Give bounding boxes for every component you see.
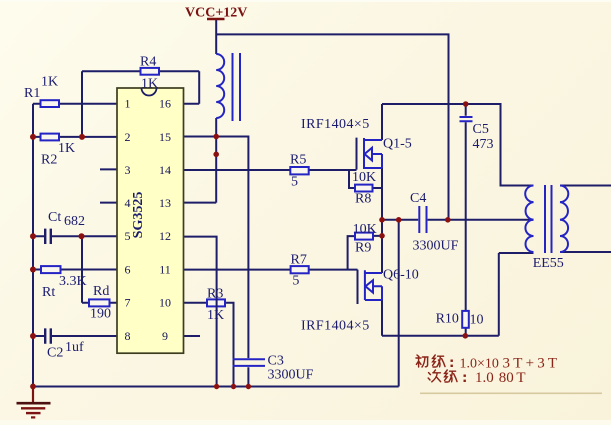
svg-text:7: 7 (125, 296, 131, 310)
svg-text:1: 1 (125, 97, 131, 111)
svg-text:VCC+12V: VCC+12V (185, 6, 247, 21)
svg-text:10: 10 (470, 313, 484, 328)
svg-text:R3: R3 (207, 287, 223, 302)
svg-text:14: 14 (159, 163, 171, 177)
svg-text:16: 16 (159, 97, 171, 111)
svg-text:8: 8 (125, 329, 131, 343)
svg-text:5: 5 (125, 229, 131, 243)
svg-text:1K: 1K (58, 141, 75, 156)
svg-text:R4: R4 (140, 55, 156, 70)
svg-text:13: 13 (159, 196, 171, 210)
svg-text:9: 9 (162, 329, 168, 343)
svg-text:R10: R10 (436, 312, 459, 327)
svg-text:C3: C3 (268, 354, 284, 369)
svg-text:10K: 10K (353, 222, 377, 237)
svg-text:10K: 10K (352, 170, 376, 185)
svg-text:1K: 1K (41, 75, 58, 90)
svg-text:5: 5 (292, 274, 299, 289)
svg-text:2: 2 (125, 130, 131, 144)
svg-text:C4: C4 (410, 191, 426, 206)
svg-text:12: 12 (159, 229, 171, 243)
svg-text:80: 80 (499, 370, 514, 386)
svg-text:473: 473 (473, 137, 494, 152)
svg-text:1uf: 1uf (65, 340, 84, 355)
svg-text:C5: C5 (473, 122, 489, 137)
svg-text:1K: 1K (207, 308, 224, 323)
svg-text:IRF1404×5: IRF1404×5 (301, 319, 370, 334)
svg-text:T: T (516, 370, 525, 386)
svg-text:682: 682 (64, 214, 85, 229)
svg-text:3: 3 (125, 163, 131, 177)
svg-text:R7: R7 (291, 253, 307, 268)
svg-text:Q1-5: Q1-5 (383, 137, 412, 152)
svg-text:3300UF: 3300UF (413, 239, 459, 254)
svg-text:11: 11 (159, 262, 171, 276)
svg-text:6: 6 (125, 262, 131, 276)
svg-text:4: 4 (125, 196, 131, 210)
svg-text:SG3525: SG3525 (131, 192, 146, 239)
svg-text:C2: C2 (47, 346, 63, 361)
svg-text:Q6-10: Q6-10 (383, 268, 419, 283)
svg-text:Rd: Rd (93, 284, 109, 299)
svg-text:1.0: 1.0 (475, 370, 494, 386)
svg-text:5: 5 (291, 175, 298, 190)
svg-text:R9: R9 (355, 241, 371, 256)
svg-text:R1: R1 (24, 86, 40, 101)
svg-text:1K: 1K (141, 77, 158, 92)
svg-text:Rt: Rt (42, 285, 55, 300)
svg-text:R8: R8 (355, 192, 371, 207)
svg-text:R2: R2 (41, 153, 57, 168)
svg-text:190: 190 (90, 307, 111, 322)
svg-text:10: 10 (159, 296, 171, 310)
svg-text:EE55: EE55 (533, 256, 564, 271)
svg-text:IRF1404×5: IRF1404×5 (301, 117, 370, 132)
svg-text:15: 15 (159, 130, 171, 144)
svg-text:3300UF: 3300UF (268, 368, 314, 383)
svg-text:3.3K: 3.3K (59, 274, 87, 289)
svg-text:R5: R5 (290, 153, 306, 168)
svg-text:Ct: Ct (48, 210, 61, 225)
